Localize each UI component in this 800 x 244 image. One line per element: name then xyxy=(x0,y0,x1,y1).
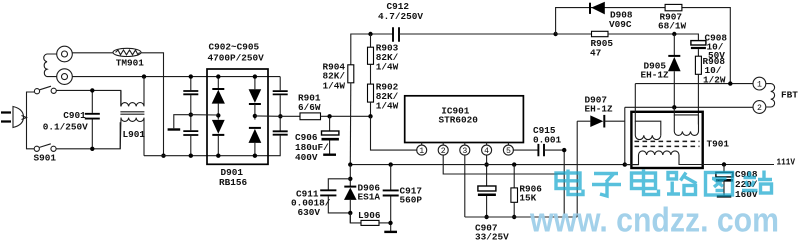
transformer T901 box xyxy=(631,112,702,168)
diode D907 EH-1Z xyxy=(577,95,625,128)
switch S901 (bottom pole) xyxy=(34,144,57,164)
node wire A to FBT-1 xyxy=(728,81,732,85)
resistor R906 15K xyxy=(511,165,542,217)
bottom source net wire xyxy=(465,216,577,218)
inductor L901 (common mode choke) xyxy=(120,77,145,156)
output wire 111V xyxy=(703,164,774,166)
node bridge left bottom xyxy=(216,154,220,158)
capacitor C911 0.0018/630V xyxy=(291,179,350,218)
node D906 top on rail xyxy=(348,162,352,166)
svg-text:1/4W: 1/4W xyxy=(376,62,399,73)
degauss connector plug (two jacks with coil) xyxy=(44,46,73,84)
svg-text:4.7/250V: 4.7/250V xyxy=(378,11,423,22)
svg-text:111V: 111V xyxy=(777,157,796,168)
pin 5 xyxy=(503,143,513,156)
node wire B / snubber branch xyxy=(553,32,557,36)
node cap pair top rail xyxy=(189,74,193,78)
svg-text:L901: L901 xyxy=(123,129,146,140)
wire R904 bottom to hot-ground rail xyxy=(349,83,352,165)
node C901 top xyxy=(90,88,94,92)
wire B left corner above R904 xyxy=(351,34,393,65)
line-filter capacitor upper right (C904) xyxy=(273,77,288,131)
wire pin5 to C915 xyxy=(513,149,539,151)
capacitor C908 220/160V xyxy=(716,165,758,201)
diode D901a (top left) xyxy=(212,77,225,120)
svg-text:6/6W: 6/6W xyxy=(298,102,321,113)
node D905 anode / winding2 left xyxy=(672,105,676,109)
T901 core (dashed) xyxy=(635,141,700,146)
wire B from R905 to corner xyxy=(608,34,698,41)
node filter caps midpoint xyxy=(189,113,193,117)
SECTION: bridge xyxy=(191,69,371,188)
node R906 bottom xyxy=(512,215,516,219)
node pin4 on hot-ground rail xyxy=(484,162,488,166)
AC plug xyxy=(1,107,27,128)
capacitor C907 33/25V xyxy=(475,186,509,243)
capacitor C912 4.7/250V xyxy=(378,1,423,42)
node C911 top tap xyxy=(348,177,352,181)
node DC+ / pin1 branch xyxy=(368,114,372,118)
FBT coil xyxy=(766,84,798,107)
wire switch top to L901 xyxy=(56,90,121,106)
diode D901d (bottom right) xyxy=(249,128,262,156)
svg-text:ES1A: ES1A xyxy=(358,192,381,203)
wire pin2 down and right xyxy=(443,155,564,175)
node L906 right / C917 bottom xyxy=(388,221,392,225)
chassis ground bar (C917) xyxy=(384,231,397,233)
resistor R903 82K/1/4W xyxy=(368,34,399,73)
posistor TM901 xyxy=(72,48,144,68)
node bridge left mid xyxy=(216,113,220,117)
IC901 STR6020 xyxy=(405,96,524,143)
wire R902 bottom to DC+ node xyxy=(370,102,372,116)
capacitor C908 10/50V xyxy=(691,33,727,62)
wire B continues to R905 xyxy=(556,33,592,35)
svg-text:47: 47 xyxy=(590,48,601,59)
bottom AC rail xyxy=(144,136,280,156)
node right caps midpoint / DC+ xyxy=(278,114,282,118)
svg-text:S901: S901 xyxy=(34,153,57,164)
svg-text:5: 5 xyxy=(506,147,511,156)
svg-text:C902~C905: C902~C905 xyxy=(209,42,260,53)
inductor L906 xyxy=(350,210,390,225)
node cap pair bottom rail xyxy=(189,154,193,158)
chassis ground bar (left) xyxy=(168,115,191,130)
node bridge right top xyxy=(253,74,257,78)
FBT terminal 1 xyxy=(753,77,766,90)
node primary return on rail xyxy=(623,162,627,166)
node C908 output xyxy=(722,162,726,166)
node R903 top xyxy=(368,32,372,36)
svg-text:L906: L906 xyxy=(358,210,381,221)
hot-ground rail xyxy=(350,164,638,166)
svg-text:1/4W: 1/4W xyxy=(376,101,399,112)
SECTION: AC input left xyxy=(1,42,280,164)
svg-text:FBT: FBT xyxy=(781,89,798,100)
wire D907 anode riser xyxy=(576,121,578,217)
SECTION: right xyxy=(553,2,798,217)
wire FBT-2 net xyxy=(625,106,753,108)
node C907 bottom xyxy=(484,215,488,219)
wire FBT-1 net xyxy=(635,83,753,85)
pin 1 xyxy=(417,143,427,156)
svg-text:STR6020: STR6020 xyxy=(439,114,479,125)
resistor R904 82K/1/4W xyxy=(323,62,354,92)
svg-text:4700P/250V: 4700P/250V xyxy=(208,53,265,64)
svg-text:V09C: V09C xyxy=(609,19,632,30)
node C915 corner xyxy=(562,148,566,152)
svg-text:RB156: RB156 xyxy=(219,177,248,188)
capacitor C901 xyxy=(43,90,100,148)
wire bridge left mid to filter caps xyxy=(191,114,219,116)
svg-text:EH-1Z: EH-1Z xyxy=(641,70,670,81)
svg-text:0.001: 0.001 xyxy=(533,134,562,145)
node TM901 return on bottom rail xyxy=(161,154,165,158)
svg-text:0.1/250V: 0.1/250V xyxy=(43,122,88,133)
switch (top pole) xyxy=(34,86,56,94)
svg-text:www. cndzz. com: www. cndzz. com xyxy=(529,202,779,240)
node L901 top output xyxy=(142,74,146,78)
pin 3 xyxy=(460,143,470,156)
svg-text:400V: 400V xyxy=(295,152,318,163)
degauss lower wire / bridge AC top rail xyxy=(72,76,280,78)
resistor R908 10/1/2W xyxy=(695,56,725,125)
DC+ wire R901 to IC pin1 branch xyxy=(321,115,371,117)
svg-text:TM901: TM901 xyxy=(116,57,145,68)
resistor R901 6/6W xyxy=(298,93,321,120)
wire TM901 to bottom rail xyxy=(141,53,164,156)
diode D905 EH-1Z xyxy=(641,34,681,107)
wire switch bottom to L901 bottom xyxy=(56,122,120,149)
wire R903 to R902 xyxy=(370,64,372,84)
node D905 cathode branch xyxy=(672,32,676,36)
FBT terminal 2 xyxy=(753,101,766,114)
node bridge right bottom xyxy=(253,154,257,158)
capacitor C906 180uF/400V xyxy=(295,116,339,163)
svg-text:C901: C901 xyxy=(63,110,86,121)
diode D901c (top right) xyxy=(249,77,262,120)
resistor R902 82K/1/4W xyxy=(368,82,399,112)
svg-text:630V: 630V xyxy=(298,207,321,218)
wire pin4 down xyxy=(486,155,488,187)
node C901 bottom xyxy=(90,147,94,151)
svg-text:33/25V: 33/25V xyxy=(475,232,509,243)
pin 2 xyxy=(438,143,448,156)
svg-text:1/4W: 1/4W xyxy=(323,81,346,92)
line-filter capacitor lower (C903) xyxy=(183,131,198,156)
SECTION: middle xyxy=(291,1,639,243)
svg-text:1: 1 xyxy=(419,147,424,156)
wire C915 right down to bottom net xyxy=(544,150,564,217)
diode D906 ES1A xyxy=(344,165,380,223)
wire B from C912 to D908 branch xyxy=(399,33,556,35)
resistor R907 68/1W xyxy=(658,4,687,31)
svg-text:560P: 560P xyxy=(400,195,423,206)
wire plug to switch split xyxy=(27,92,35,149)
capacitor C915 0.001 xyxy=(533,125,562,156)
resistor R905 47 xyxy=(590,31,613,58)
SECTION: watermark xyxy=(529,170,779,240)
node R906 top xyxy=(512,162,516,166)
line-filter capacitor upper (C902) xyxy=(183,77,198,131)
T901 primary winding 1 xyxy=(635,84,661,140)
DC+ wire to R901 xyxy=(255,115,300,117)
pin 4 xyxy=(482,143,492,156)
diode D901b (bottom left) xyxy=(212,120,225,156)
svg-text:T901: T901 xyxy=(707,139,730,150)
wire primary return riser xyxy=(624,107,626,164)
node bridge left top xyxy=(216,74,220,78)
svg-text:2: 2 xyxy=(757,104,762,113)
wire pin3 down to bottom net xyxy=(464,155,466,218)
diode D908 V09C xyxy=(590,2,633,31)
node C917 R906-rail xyxy=(389,162,393,166)
bridge rectifier D901 RB156 box xyxy=(207,69,268,164)
T901 secondary winding xyxy=(625,151,703,165)
capacitor C917 560P xyxy=(383,165,423,231)
svg-text:1: 1 xyxy=(757,81,762,90)
svg-text:EH-1Z: EH-1Z xyxy=(585,104,614,115)
wire pin1 to DC+ xyxy=(371,116,418,150)
svg-text:68/1W: 68/1W xyxy=(658,21,687,32)
node C906 plus xyxy=(327,114,331,118)
node D906 anode xyxy=(348,211,352,215)
T901 aux winding 2 xyxy=(674,107,698,135)
line-filter capacitor lower right (C905) xyxy=(273,131,288,134)
wire snubber riser xyxy=(556,8,731,84)
node bridge right mid xyxy=(253,114,257,118)
